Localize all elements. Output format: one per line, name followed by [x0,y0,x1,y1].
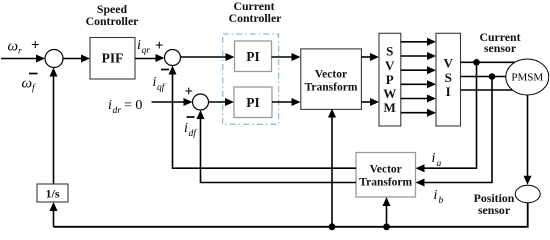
position sensor ellipse [515,185,540,202]
svg-text:i: i [153,75,157,90]
wire VT2 out2 to junction3 (i_df feedback) [201,117,357,183]
svg-text:r: r [18,47,22,57]
block SVPWM [379,33,401,126]
junction dot rail at VT2 riser [383,223,390,230]
wire 1/s up to junction1 (omega_f feedback) [53,74,55,184]
wire VT1 to SVPWM row1 [362,56,373,58]
svg-text:ω: ω [22,76,33,92]
wire VSI phase c [461,89,517,91]
title Current sensor [479,30,520,55]
block 1/s [37,184,68,202]
junction dot phase b [489,73,496,80]
svg-text:sensor: sensor [484,41,516,55]
svg-text:b: b [439,196,444,206]
label i_b [434,188,444,206]
block Vector Transform 2 [356,153,416,198]
junction dot phase a [473,59,480,66]
svg-text:a: a [437,159,442,169]
svg-text:= 0: = 0 [124,98,142,113]
wire omega_r input [1,58,38,60]
wire junction2 to PI1 [181,56,229,58]
svg-text:sensor: sensor [478,203,510,217]
svg-text:PIF: PIF [102,50,124,65]
svg-text:Vector: Vector [370,164,402,176]
wire PIF to junction2 [135,58,158,60]
label i_a [432,151,442,169]
svg-text:i: i [108,98,112,113]
bottom rail from position sensor [54,203,528,227]
svg-text:dr: dr [113,106,122,116]
svg-text:+: + [185,84,194,100]
wire i_dr to junction3 [152,101,187,103]
label omega_r [8,39,23,57]
wire junction3 to PI2 [209,101,228,103]
svg-text:PI: PI [246,95,260,110]
summing junction 2 [165,50,181,66]
block PIF [90,38,135,80]
wire rail up to 1/s [53,208,55,227]
sign - at summing junction 1 [29,73,38,75]
wire VT1 to SVPWM row2 [362,101,373,103]
svg-text:i: i [184,121,188,136]
svg-text:ω: ω [8,39,19,55]
wire VT2 out1 to junction2 (i_qf feedback) [173,72,357,168]
wire junction1 to PIF [63,58,83,60]
title Speed Controller [86,2,139,28]
svg-text:S: S [386,44,393,59]
label omega_f [22,76,37,94]
block PI1 [235,41,272,72]
svg-text:S: S [445,70,452,85]
title Position sensor [474,191,515,217]
block PI2 [234,87,272,118]
svg-text:M: M [384,100,396,115]
svg-text:Controller: Controller [229,11,282,25]
label i_qr [137,38,150,56]
svg-text:Vector: Vector [315,69,347,81]
sign - at summing junction 2 [161,69,169,71]
wires SVPWM to VSI (6 arrows) [401,38,437,117]
wire PI1 to VT1 [272,56,295,58]
wire PI2 to VT1 [272,101,294,103]
summing junction 1 [45,50,63,68]
svg-text:Controller: Controller [86,14,139,28]
junction dot rail at VT1 riser [329,223,336,230]
wire VSI phase b [461,76,507,78]
summing junction 3 [193,94,209,110]
wire i_a: sensor a down to VT2 [422,62,477,168]
svg-text:I: I [446,84,451,99]
label i_dr = 0 [108,98,142,116]
title Current Controller [229,0,282,25]
wire VSI phase a [461,61,516,63]
sign - at summing junction 3 [187,116,195,118]
svg-text:V: V [444,56,454,71]
svg-text:i: i [432,151,436,166]
label i_df [184,121,197,139]
svg-text:Transform: Transform [359,177,412,189]
svg-text:i: i [434,188,438,203]
wire riser to VT1 bottom [331,115,333,227]
svg-text:W: W [383,86,396,101]
block VSI [436,33,461,126]
svg-text:qr: qr [142,46,151,56]
block Vector Transform 1 [301,49,362,110]
svg-text:Transform: Transform [305,82,358,94]
wire riser to VT2 bottom [386,204,388,227]
label i_qf [153,75,166,93]
motor PMSM [506,59,549,95]
svg-text:P: P [386,72,394,87]
wire i_b: sensor b down to VT2 [422,77,492,183]
svg-text:+: + [31,38,40,54]
svg-text:PMSM: PMSM [511,72,543,84]
svg-text:PI: PI [246,49,260,64]
svg-text:i: i [137,38,141,53]
dashed current-controller box [223,34,279,124]
svg-text:V: V [385,58,395,73]
svg-text:1/s: 1/s [45,187,59,201]
svg-text:+: + [155,38,164,54]
wire PMSM to position sensor [527,95,529,178]
